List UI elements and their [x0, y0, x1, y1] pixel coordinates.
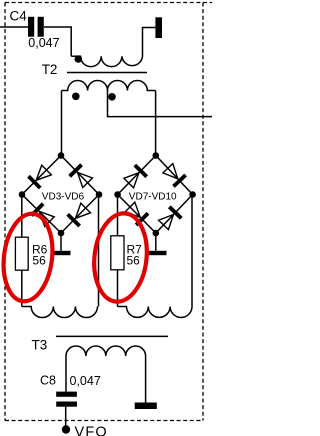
svg-text:0,047: 0,047: [28, 36, 59, 50]
svg-text:VD7-VD10: VD7-VD10: [129, 192, 177, 203]
svg-text:C8: C8: [40, 374, 56, 388]
svg-text:56: 56: [32, 253, 46, 267]
svg-text:T3: T3: [32, 338, 48, 353]
svg-text:VD3-VD6: VD3-VD6: [42, 192, 85, 203]
svg-text:T2: T2: [42, 62, 58, 77]
svg-text:56: 56: [127, 253, 141, 267]
svg-text:C4: C4: [10, 8, 28, 23]
svg-text:VFO: VFO: [75, 424, 108, 436]
svg-text:0,047: 0,047: [70, 374, 101, 388]
